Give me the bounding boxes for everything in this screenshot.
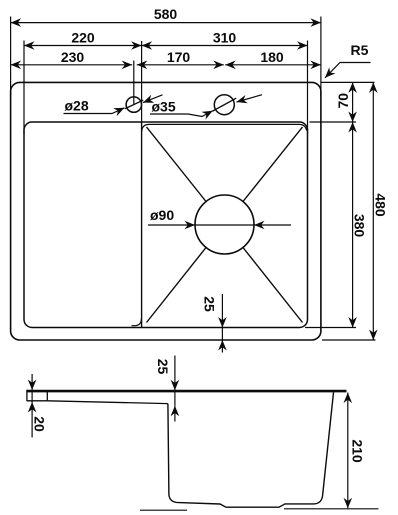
extension basin top right (70/380) — [310, 121, 357, 123]
lip tick — [46, 391, 48, 401]
faucet hole o28 — [126, 97, 141, 112]
dimension 230 line — [11, 64, 133, 66]
chord through drain circle — [195, 224, 254, 226]
svg-text:580: 580 — [154, 6, 178, 22]
dimension 580 line — [11, 22, 321, 24]
extension basin bottom right (380) — [305, 327, 356, 329]
dimension 20 lower arrow — [31, 402, 33, 438]
baseline left segment — [140, 509, 187, 511]
svg-text:380: 380 — [352, 214, 368, 238]
svg-text:ø28: ø28 — [65, 98, 89, 114]
left lip edge — [26, 390, 28, 401]
extension line o28 centre (230/170) — [133, 61, 135, 105]
svg-text:ø90: ø90 — [150, 207, 174, 223]
dimension o90 left arrow — [148, 224, 195, 226]
extension top edge right (70/480) — [322, 81, 375, 83]
dimension 170 line — [137, 64, 224, 66]
dimension 70 line — [352, 82, 354, 122]
dimension 25 plan lower segment — [221, 340, 223, 353]
dimension 20 through segment — [31, 390, 33, 402]
bowl diagonal top-right — [243, 127, 303, 202]
drainboard bottom-right corner — [132, 319, 142, 326]
baseline right segment — [284, 508, 379, 510]
svg-text:230: 230 — [61, 49, 85, 65]
svg-text:20: 20 — [32, 416, 48, 432]
dimension 310 line — [142, 45, 308, 47]
dimension 25 section through segment — [174, 390, 176, 406]
dimension 25 plan through segment — [221, 328, 223, 341]
extension line divider (220/310) — [141, 41, 143, 122]
svg-text:R5: R5 — [351, 42, 369, 58]
lip underside — [27, 400, 47, 402]
drain circle o90 — [195, 195, 254, 254]
dimension 220 line — [24, 45, 142, 47]
leader o35 underline and arrow — [150, 111, 213, 117]
dimension 20 upper arrow — [31, 374, 33, 390]
svg-text:220: 220 — [71, 30, 95, 46]
dimension 480 line — [372, 82, 374, 340]
dimension 180 line — [225, 64, 321, 66]
extension outer bottom right (480) — [322, 339, 376, 341]
slash through o28 hole — [125, 100, 143, 109]
bowl inner top edge — [142, 124, 307, 131]
bowl diagonal bottom-left — [147, 248, 207, 323]
svg-text:310: 310 — [213, 30, 237, 46]
leader arrow at o28 right edge — [143, 95, 163, 103]
svg-text:70: 70 — [335, 93, 351, 109]
section view — [27, 390, 379, 510]
leader o28 underline and arrow — [64, 108, 125, 114]
dimension 25 section lower segment — [174, 406, 176, 422]
drainboard underside slope — [47, 401, 168, 404]
dimension o90 right arrow — [254, 224, 291, 226]
svg-text:210: 210 — [350, 439, 366, 463]
dimension 380 line — [352, 122, 354, 328]
bowl profile — [168, 392, 334, 507]
extension line basin-left (220) — [23, 41, 25, 135]
faucet hole o35 — [214, 95, 234, 115]
svg-text:ø35: ø35 — [152, 99, 176, 115]
rim top surface (thick cut line) — [27, 390, 347, 393]
leader arrow at o35 right edge — [237, 95, 263, 102]
dimension 210 line — [347, 393, 349, 509]
extension line basin-right (310) — [307, 41, 309, 135]
svg-text:170: 170 — [167, 49, 191, 65]
bowl diagonal top-left — [147, 127, 207, 202]
sink basin inner rectangle (plan view) — [24, 122, 308, 328]
svg-text:25: 25 — [202, 296, 218, 312]
svg-text:180: 180 — [260, 49, 284, 65]
extension line outer-left (580) — [10, 17, 12, 97]
bowl diagonal bottom-right — [243, 248, 303, 323]
leader R5 — [325, 63, 371, 78]
slash through o35 hole — [213, 98, 236, 111]
dimension 25 plan upper segment — [221, 294, 223, 328]
svg-text:25: 25 — [155, 359, 171, 375]
sink outer rim rectangle (plan view) — [11, 82, 321, 340]
svg-text:480: 480 — [373, 193, 389, 217]
dimension 25 section upper segment — [174, 356, 176, 391]
extension line outer-right (580) — [320, 17, 322, 97]
divider line between drainboard and bowl — [141, 122, 143, 328]
